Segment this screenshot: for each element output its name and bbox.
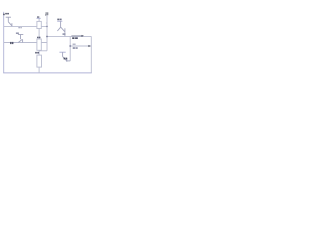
current source symbol mark at node column top — [46, 12, 48, 15]
label above R3 — [35, 52, 37, 54]
value text on wire2 — [10, 42, 11, 44]
resistor R1 — [37, 21, 41, 28]
wire resistor chain stubs — [38, 18, 40, 73]
current arrowhead on wire B — [88, 45, 90, 47]
faint label above wire B — [73, 44, 76, 45]
label 1mA left top — [5, 13, 7, 15]
label Q4 — [64, 58, 66, 60]
supply bar above R1 — [37, 17, 41, 19]
node dot at 70.2,46 — [69, 45, 71, 47]
wire A output y=36.4 — [47, 35, 91, 37]
wire left vertical rail — [3, 12, 5, 73]
label Iout1 under arrow — [72, 37, 74, 39]
node dot at 47,26.4 — [46, 26, 48, 28]
resistor R3 — [37, 55, 42, 67]
label Iout2 under wire B — [73, 47, 75, 49]
current arrow on wire A — [71, 35, 81, 37]
label above supply bar R1 — [37, 16, 39, 17]
transistor Q3 top-right — [57, 21, 65, 36]
transistor Q1 — [6, 17, 12, 26]
wire1 horizontal y=26.4 — [4, 25, 47, 27]
tick at node column y=23 — [46, 22, 47, 24]
transistor Q2 on wire2 — [18, 35, 23, 43]
transistor Q4 lower-right — [63, 52, 71, 62]
label above R2 — [37, 37, 38, 39]
label above top-right supply bar — [57, 19, 59, 21]
wire R2-bottom to node column y=50.8 — [39, 50, 47, 52]
resistor R2 — [37, 39, 41, 50]
ground rail bottom — [3, 72, 92, 74]
wire B y=46 — [70, 45, 91, 47]
label Q3 — [63, 33, 66, 35]
wire node column x=47 — [46, 15, 48, 51]
faint net label under wire1 — [18, 27, 20, 28]
wire right vertical — [90, 36, 92, 73]
label Q2 above — [16, 33, 19, 34]
node dot at 47,36.5 — [46, 36, 48, 38]
current source arrowhead on left rail — [3, 13, 5, 15]
supply bar above Q4 (lower right) — [59, 51, 65, 53]
supply bar top-right — [57, 20, 62, 22]
wire2 horizontal y=43.3 — [4, 42, 47, 44]
wire branch x=70.2 — [69, 36, 71, 61]
